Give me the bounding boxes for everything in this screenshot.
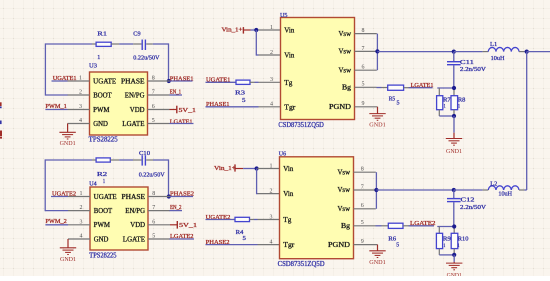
svg-text:2: 2 bbox=[80, 205, 83, 211]
svg-text:9: 9 bbox=[362, 101, 365, 107]
svg-text:GND: GND bbox=[94, 236, 109, 243]
svg-text:5: 5 bbox=[397, 101, 400, 107]
svg-text:Vin_1+: Vin_1+ bbox=[214, 165, 236, 172]
svg-text:TPS28225: TPS28225 bbox=[89, 252, 117, 259]
svg-text:C10: C10 bbox=[139, 150, 150, 157]
svg-text:R7: R7 bbox=[443, 97, 451, 104]
svg-text:4: 4 bbox=[80, 234, 83, 240]
svg-text:8: 8 bbox=[361, 167, 364, 173]
svg-text:4: 4 bbox=[270, 102, 273, 108]
svg-text:R1: R1 bbox=[97, 30, 107, 37]
svg-text:7: 7 bbox=[362, 46, 365, 52]
svg-text:GND1: GND1 bbox=[369, 259, 386, 266]
svg-text:Vsw: Vsw bbox=[338, 186, 351, 194]
svg-text:2: 2 bbox=[270, 188, 273, 194]
svg-text:3: 3 bbox=[79, 104, 82, 110]
svg-text:3: 3 bbox=[80, 219, 83, 225]
svg-text:7: 7 bbox=[152, 205, 155, 211]
svg-text:BOOT: BOOT bbox=[94, 208, 113, 215]
svg-text:GND: GND bbox=[93, 121, 108, 128]
svg-text:5: 5 bbox=[396, 242, 399, 249]
svg-text:C12: C12 bbox=[461, 197, 475, 204]
svg-text:2: 2 bbox=[270, 50, 273, 56]
svg-text:LGATE2: LGATE2 bbox=[410, 220, 436, 227]
svg-text:10uH: 10uH bbox=[491, 55, 505, 62]
svg-text:BOOT: BOOT bbox=[93, 92, 112, 99]
svg-text:C9: C9 bbox=[133, 30, 140, 37]
svg-text:PWM: PWM bbox=[94, 222, 110, 229]
svg-text:LGATE1: LGATE1 bbox=[411, 82, 434, 89]
svg-text:PGND: PGND bbox=[328, 241, 350, 249]
svg-text:5: 5 bbox=[362, 82, 365, 88]
svg-text:6: 6 bbox=[152, 104, 155, 110]
svg-text:1: 1 bbox=[270, 25, 273, 31]
svg-text:PHASE: PHASE bbox=[122, 194, 146, 201]
svg-text:GND1: GND1 bbox=[446, 148, 462, 155]
svg-text:PWM_1: PWM_1 bbox=[45, 103, 66, 110]
svg-text:LGATE1: LGATE1 bbox=[170, 119, 193, 126]
svg-text:R9: R9 bbox=[443, 236, 451, 243]
svg-text:EN/PG: EN/PG bbox=[125, 92, 145, 99]
svg-text:4: 4 bbox=[270, 239, 273, 245]
svg-text:R5: R5 bbox=[389, 95, 395, 102]
svg-text:8: 8 bbox=[362, 28, 365, 34]
svg-text:VDD: VDD bbox=[130, 222, 145, 229]
svg-text:5V_1: 5V_1 bbox=[179, 107, 197, 114]
svg-text:TPS28225: TPS28225 bbox=[89, 137, 119, 144]
svg-text:Bg: Bg bbox=[342, 84, 352, 92]
svg-text:7: 7 bbox=[361, 184, 364, 190]
svg-text:Tg: Tg bbox=[283, 216, 292, 224]
svg-text:PHASE: PHASE bbox=[121, 78, 145, 85]
svg-text:R10: R10 bbox=[458, 236, 469, 243]
svg-text:7: 7 bbox=[152, 90, 155, 96]
svg-text:R3: R3 bbox=[235, 89, 246, 96]
svg-text:CSD87351ZQ5D: CSD87351ZQ5D bbox=[278, 121, 324, 129]
svg-text:EN_2: EN_2 bbox=[170, 204, 182, 211]
svg-text:1: 1 bbox=[97, 54, 100, 61]
svg-text:5: 5 bbox=[361, 220, 364, 226]
svg-text:9: 9 bbox=[361, 239, 364, 245]
svg-text:5V_1: 5V_1 bbox=[179, 222, 197, 229]
svg-text:1: 1 bbox=[270, 163, 273, 169]
svg-text:4: 4 bbox=[79, 118, 82, 124]
svg-text:1: 1 bbox=[80, 191, 83, 197]
svg-text:0.22u/50V: 0.22u/50V bbox=[139, 172, 165, 179]
svg-text:Vsw: Vsw bbox=[339, 66, 352, 74]
svg-text:Vin: Vin bbox=[284, 52, 294, 60]
svg-text:Vsw: Vsw bbox=[338, 168, 351, 176]
svg-text:EN/PG: EN/PG bbox=[125, 208, 145, 215]
svg-text:CSD87351ZQ5D: CSD87351ZQ5D bbox=[278, 260, 325, 268]
svg-text:2: 2 bbox=[79, 90, 82, 96]
svg-text:Tg: Tg bbox=[284, 79, 293, 87]
svg-text:UGATE: UGATE bbox=[93, 78, 116, 85]
svg-text:U6: U6 bbox=[279, 151, 287, 158]
svg-text:Tgr: Tgr bbox=[284, 103, 296, 111]
svg-text:3: 3 bbox=[270, 214, 273, 220]
svg-text:LGATE: LGATE bbox=[123, 236, 145, 243]
svg-text:Vin_1+: Vin_1+ bbox=[222, 26, 243, 33]
svg-text:PWM: PWM bbox=[93, 107, 109, 114]
svg-text:C11: C11 bbox=[460, 59, 474, 66]
svg-text:GND1: GND1 bbox=[447, 272, 462, 276]
svg-text:Tgr: Tgr bbox=[283, 241, 295, 249]
svg-text:Vin: Vin bbox=[283, 165, 293, 173]
svg-text:L1: L1 bbox=[490, 41, 497, 48]
svg-text:2.2n/50V: 2.2n/50V bbox=[460, 66, 486, 73]
svg-text:0.22u/50V: 0.22u/50V bbox=[133, 54, 159, 61]
svg-text:L2: L2 bbox=[490, 181, 497, 188]
svg-text:GND1: GND1 bbox=[369, 122, 386, 129]
svg-text:6: 6 bbox=[361, 203, 364, 209]
svg-text:GND1: GND1 bbox=[60, 256, 76, 263]
svg-text:UGATE: UGATE bbox=[94, 194, 117, 201]
svg-text:6: 6 bbox=[362, 65, 365, 71]
svg-text:GND1: GND1 bbox=[60, 140, 76, 147]
svg-text:LGATE: LGATE bbox=[122, 121, 144, 128]
svg-text:Bg: Bg bbox=[341, 222, 351, 230]
svg-text:8: 8 bbox=[152, 76, 155, 82]
svg-text:U3: U3 bbox=[89, 63, 97, 70]
svg-text:10uH: 10uH bbox=[498, 191, 512, 198]
svg-text:Vsw: Vsw bbox=[339, 48, 352, 56]
svg-text:6: 6 bbox=[152, 219, 155, 225]
svg-text:Vin: Vin bbox=[283, 190, 293, 198]
svg-text:5: 5 bbox=[152, 118, 155, 124]
svg-text:R8: R8 bbox=[458, 97, 466, 104]
svg-text:U5: U5 bbox=[280, 12, 288, 19]
svg-text:2.2n/50V: 2.2n/50V bbox=[460, 204, 486, 211]
svg-text:PWM_2: PWM_2 bbox=[45, 218, 66, 225]
svg-text:Vin: Vin bbox=[284, 27, 294, 35]
svg-text:Vsw: Vsw bbox=[339, 30, 352, 38]
svg-text:R2: R2 bbox=[97, 171, 107, 178]
svg-text:3: 3 bbox=[270, 77, 273, 83]
svg-text:5: 5 bbox=[152, 234, 155, 240]
svg-text:VDD: VDD bbox=[130, 107, 145, 114]
svg-text:8: 8 bbox=[152, 191, 155, 197]
svg-text:PGND: PGND bbox=[329, 103, 351, 111]
svg-text:U4: U4 bbox=[89, 181, 97, 188]
svg-text:1: 1 bbox=[103, 179, 105, 185]
svg-text:Vsw: Vsw bbox=[338, 205, 351, 213]
svg-text:1: 1 bbox=[79, 76, 82, 82]
